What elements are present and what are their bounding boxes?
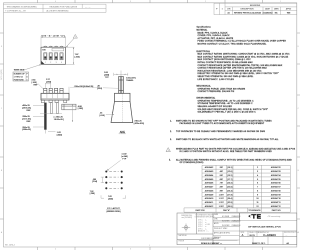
svg-text:SCALE 8:1 WEIGHT —: SCALE 8:1 WEIGHT — [201,242,222,245]
svg-text:ADE04T10: ADE04T10 [271,197,282,200]
svg-text:SEALING: AGAINST DIP SOLDER: SEALING: AGAINST DIP SOLDER [198,105,233,108]
copyright header table [4,4,107,12]
pitch dimension above nubs [45,83,50,88]
svg-text:MOVING CONTACT: CU ALLOY, TWO-: MOVING CONTACT: CU ALLOY, TWO-SIDED GOLD… [198,43,268,46]
svg-text:ADE04T12: ADE04T12 [271,205,282,208]
top view scallops on upper edge [44,46,63,47]
svg-text:[.296]: [.296] [90,193,95,195]
svg-text:ADE0407: ADE0407 [205,186,214,189]
svg-text:[12.6]: [12.6] [227,171,232,173]
svg-text:IN 2 AND 3 POSITION SWITCH WIT: IN 2 AND 3 POSITION SWITCH WITHOUT ALSO,… [180,150,273,153]
svg-text:INSULATION RESISTANCE: 1,000 M: INSULATION RESISTANCE: 1,000 MEGOHMS MIN… [198,69,263,72]
svg-text:1471-9 (3/13): 1471-9 (3/13) [1,69,3,80]
svg-text:[20.2]: [20.2] [227,183,232,185]
svg-text:OPERATING TEMPERATURE: -40 TO: OPERATING TEMPERATURE: -40 TO +85 DEGREE… [198,99,255,102]
seating plane line [40,113,62,115]
wire side leader [23,65,41,71]
svg-text:CONTACT RESISTANCE (AFTER LIFE: CONTACT RESISTANCE (AFTER LIFE TEST): 10… [198,67,268,70]
left leader dims at nubs [32,80,39,87]
svg-text:MECHANICAL: MECHANICAL [197,85,212,88]
svg-text:ADE0402: ADE0402 [205,166,214,169]
svg-text:19.00±.05 ]: 19.00±.05 ] [54,119,64,121]
svg-text:SELECTIVE STRENGTH: 500 VAC RM: SELECTIVE STRENGTH: 500 VAC RMS @ SEA LE… [198,75,255,78]
side view upper body box [115,93,131,101]
svg-text:[17.7]: [17.7] [227,179,232,181]
svg-text:SOLDER HEAT RESISTANCE PER MIL: SOLDER HEAT RESISTANCE PER MIL-202, COND… [198,108,269,111]
svg-text:WM: WM [287,13,291,15]
front view body [41,93,69,100]
svg-text:mm [INCHES]: mm [INCHES] [181,217,192,219]
svg-text:[.010]: [.010] [100,115,105,117]
svg-text:[.100]: [.100] [32,82,37,84]
svg-text:Specifications:: Specifications: [197,26,212,29]
vertical dim line right of pins [72,105,74,123]
svg-text:1.197: 1.197 [219,198,225,200]
svg-text:ADE04T04: ADE04T04 [271,174,282,177]
projection angle symbol [182,224,190,232]
specifications text block [197,26,291,114]
title block frame [177,213,297,245]
bracket dim below body [54,117,64,122]
stem width dim [97,86,102,91]
svg-text:PART NO.: PART NO. [272,209,282,212]
svg-text:STORAGE TEMPERATURE: -40 TO +1: STORAGE TEMPERATURE: -40 TO +105 DEGREES… [198,102,254,105]
svg-text:FINISH: FINISH [179,240,185,242]
svg-text:RELEASED FOR PUBLICATION: RELEASED FOR PUBLICATION [50,5,78,8]
svg-text:[.310]: [.310] [75,57,80,59]
svg-text:ADE0410: ADE0410 [205,197,214,200]
svg-text:1: 1 [222,9,223,11]
svg-text:W. MYER: W. MYER [222,220,230,222]
svg-text:5.: 5. [169,159,171,161]
svg-text:TRAVEL: TRAVEL [126,79,135,82]
stem travel dimension [114,71,128,77]
svg-text:APVD: APVD [214,222,219,225]
size cage drawing no row [241,231,299,236]
row span dimension [101,195,126,198]
front view: actuator nubs [44,88,63,93]
top view actuators (off position) [44,56,62,58]
svg-text:[30.4]: [30.4] [227,198,232,200]
top view switch slot 1 [44,53,63,60]
svg-text:REVISIONS: REVISIONS [250,5,261,7]
svg-text:1.: 1. [170,120,172,122]
svg-text:ON: ON [42,50,46,52]
svg-text:REVISED PER ECO-14-009143: REVISED PER ECO-14-009143 [234,13,261,15]
pin 1 corner marker [41,61,44,64]
svg-text:[.050]: [.050] [46,82,51,84]
svg-text:ADE0404: ADE0404 [205,174,214,177]
svg-text:A: A [242,233,244,237]
svg-text:[32.9]: [32.9] [227,202,232,204]
svg-text:TYP: TYP [105,77,110,79]
svg-text:3: 3 [130,1,131,3]
svg-text:4: 4 [168,150,169,152]
svg-text:POSITIONS: POSITIONS [14,79,25,81]
svg-text:[.098±.01]: [.098±.01] [22,129,31,131]
svg-text:CONTACT PRESSURE: 200,000 PSI: CONTACT PRESSURE: 200,000 PSI [198,90,235,93]
TE connectivity logo [248,214,261,219]
svg-text:2: 2 [50,62,51,64]
note 1 triangle flag with leader [66,34,77,46]
svg-text:LIFE EXPECTANCY: 1,000 CYCLES: LIFE EXPECTANCY: 1,000 CYCLES [198,78,235,81]
svg-text:[.300]: [.300] [108,199,113,201]
pad diameter callout [122,153,129,160]
svg-text:[10.1]: [10.1] [227,167,232,169]
svg-text:1: 1 [280,1,281,3]
svg-text:23JAN2014: 23JAN2014 [232,224,241,227]
svg-text:[2.54]: [2.54] [92,181,97,183]
svg-text:[.040]: [.040] [57,134,62,136]
svg-text:3.: 3. [170,139,172,141]
svg-text:1.297: 1.297 [219,202,225,204]
svg-text:MATERIAL: MATERIAL [197,29,209,32]
parts list table [184,165,290,212]
svg-text:— . —: — . — [85,6,90,8]
left wall dim .25 [.010] [100,113,105,118]
svg-text:ANGLES: ANGLES [198,230,206,233]
svg-text:00779: 00779 [249,235,254,237]
svg-text:MAX CONTACT RATING (SWITCHING): MAX CONTACT RATING (SWITCHING): CONDUCTA… [198,53,291,56]
svg-text:ADE0406: ADE0406 [205,182,214,185]
svg-text:[22.8]: [22.8] [227,187,232,189]
svg-text:1.097: 1.097 [219,194,225,196]
svg-text:CUSTOMER DRAWING: CUSTOMER DRAWING [201,237,220,240]
top view recess outline [52,48,64,51]
svg-text:APPLICATION SPEC: APPLICATION SPEC [214,232,231,235]
top view depth dimension .310 [7.87] [66,47,75,64]
svg-text:ADE04T11: ADE04T11 [271,201,282,204]
pin 2 (to seating plane) [50,103,52,114]
svg-text:ADE0408: ADE0408 [205,189,214,192]
svg-text:ADE0403: ADE0403 [205,170,214,173]
svg-text:23JAN2014: 23JAN2014 [263,12,273,15]
top view position numbers [45,62,62,64]
svg-text:M. CHEN: M. CHEN [222,216,230,218]
side stub view right of pins [62,104,76,110]
svg-text:DIP SWITCH, ADE SERIES, 4 POS: DIP SWITCH, ADE SERIES, 4 POS [248,226,281,229]
svg-text:W. MYER: W. MYER [222,225,230,227]
svg-text:MATERIAL: MATERIAL [179,234,187,237]
svg-text:A1: A1 [228,12,230,15]
svg-text:BASE: PPS, UL94V-0, BLACK: BASE: PPS, UL94V-0, BLACK [198,31,229,34]
svg-text:ADE04T08: ADE04T08 [271,189,282,192]
svg-text:ADE04T09: ADE04T09 [271,193,282,196]
svg-text:DWN: DWN [274,9,279,11]
svg-text:[.189]: [.189] [78,108,83,110]
svg-text:ENVIRONMENTAL: ENVIRONMENTAL [197,97,217,100]
pin 1 (full length, sectioned) [44,103,46,130]
svg-text:23JAN2014: 23JAN2014 [232,215,241,218]
svg-text:ADE0412: ADE0412 [205,205,214,208]
numbered notes [169,119,296,164]
height dimension .318 [8.08] [68,87,70,93]
svg-text:OF 27JAN2003 (ROHS): OF 27JAN2003 (ROHS) [180,161,204,164]
svg-text:OTHERWISE SPECIFIED:: OTHERWISE SPECIFIED: [195,217,216,219]
svg-text:C–ADE04: C–ADE04 [263,233,276,237]
svg-text:ADE04T03: ADE04T03 [271,170,282,173]
svg-text:DIM “A” [DIM “A”]: DIM “A” [DIM “A”] [41,34,65,37]
svg-text:ADE04T07: ADE04T07 [271,186,282,189]
svg-text:ELECTRICAL: ELECTRICAL [197,50,211,53]
side view: actuator stem [119,77,124,94]
svg-text:PRODUCT SPEC: PRODUCT SPEC [214,228,228,230]
svg-text:ALL MATERIALS AND FINISHES SHA: ALL MATERIALS AND FINISHES SHALL COMPLY … [176,158,292,161]
svg-text:SWITCHES TO BE SHOWN IN THE "O: SWITCHES TO BE SHOWN IN THE "OFF" POSITI… [176,119,272,122]
svg-text:THIS DRAWING IS UNPUBLISHED.: THIS DRAWING IS UNPUBLISHED. [7,5,38,8]
base width dim [134,121,144,126]
svg-text:[25.3]: [25.3] [227,190,232,192]
tolerance block text [179,214,216,243]
svg-text:4: 4 [61,62,62,64]
svg-text:[15.2]: [15.2] [227,175,232,177]
top view: DIP switch body [41,47,66,64]
svg-text:[35.5]: [35.5] [227,206,232,208]
body centerline [121,93,123,122]
svg-text:[.029±.010]: [.029±.010] [134,123,144,125]
svg-text:(WIRING SIDE): (WIRING SIDE) [107,211,121,213]
svg-text:1.397: 1.397 [219,206,225,208]
svg-text:4: 4 [55,1,56,3]
svg-text:PART P/N: PART P/N [195,209,205,212]
pad pitch dim [101,177,104,183]
svg-text:3: 3 [56,62,57,64]
pc layout solder pads [105,170,122,189]
revisions table [214,3,297,14]
svg-text:TOLERANCE: TOLERANCE [248,209,261,212]
svg-text:OPERATING FORCE: LESS THAN 800: OPERATING FORCE: LESS THAN 800 GRAMS [198,87,246,90]
svg-text:MAX CONTACT (NON-SWITCHING): 2: MAX CONTACT (NON-SWITCHING): 25MA @ 1 VD… [198,58,252,61]
svg-text:[27.9]: [27.9] [227,194,232,196]
svg-text:ADE0405: ADE0405 [205,178,214,181]
svg-text:ADE04T02: ADE04T02 [271,166,282,169]
svg-text:ADE0409: ADE0409 [205,193,214,196]
svg-text:SWITCHES TO BE BLACK WITH WHIT: SWITCHES TO BE BLACK WITH WHITE ACTUATOR… [176,138,279,141]
svg-text:MAX CONTACT RATING (CARRYING):: MAX CONTACT RATING (CARRYING): 100MA @ 5… [198,55,289,58]
svg-text:1: 1 [27,79,28,81]
note 4 triangle flag [166,148,170,152]
svg-text:DESCRIPTION: DESCRIPTION [241,9,255,11]
svg-text:PACKAGED IN LIGHT TUBES TO ACC: PACKAGED IN LIGHT TUBES TO ACCOMMODATE A… [180,122,265,125]
svg-text:ACTUATOR: PBT, UL94V-0, WHITE: ACTUATOR: PBT, UL94V-0, WHITE [198,37,234,40]
svg-text:1 THRU 12: 1 THRU 12 [14,77,23,79]
svg-text:NO. 1470-2: NO. 1470-2 [5,244,15,246]
svg-text:DATE: DATE [265,8,271,11]
svg-text:SHEET 1 OF 1: SHEET 1 OF 1 [252,243,266,245]
scale sheet row [201,242,290,245]
svg-text:23JAN2014: 23JAN2014 [232,219,241,222]
svg-text:ADE04T05: ADE04T05 [271,178,282,181]
note box: number of positions [13,72,29,81]
svg-text:TYP: TYP [122,158,127,160]
svg-text:1: 1 [45,62,46,64]
svg-text:NUMBER OF: NUMBER OF [14,74,26,76]
pin tip dim [57,132,62,136]
svg-text:0: 0 [27,77,28,79]
svg-text:CONTACT RESISTANCE (AFTER ENVI: CONTACT RESISTANCE (AFTER ENVIRONMENTAL … [198,64,283,67]
svg-text:WIRE SIDE: WIRE SIDE [14,70,25,72]
svg-text:COVER: PPS, UL94V-0, BLACK: COVER: PPS, UL94V-0, BLACK [198,34,231,37]
svg-text:APVD: APVD [286,8,292,11]
svg-text:.318±.010 [8.08±0.25]: .318±.010 [8.08±0.25] [74,86,94,88]
svg-text:WHEN ADDING PLCS PART NO DIGIT: WHEN ADDING PLCS PART NO DIGITS PER PART… [176,147,296,150]
svg-text:SOLDERABILITY PER MIL-T (AT) 2: SOLDERABILITY PER MIL-T (AT) 2 DEG C @ 2… [198,111,257,114]
front view standoff feet [41,100,66,103]
svg-text:TOP SURFACES TO BE CLEANLY AND: TOP SURFACES TO BE CLEANLY AND PERMANENT… [176,130,266,133]
svg-text:1: 1 [75,37,76,39]
svg-text:[.016]: [.016] [97,88,102,90]
svg-text:ALL RIGHTS RESERVED.: ALL RIGHTS RESERVED. [47,10,70,13]
left bottom dim [90,191,95,195]
svg-text:© COPYRIGHT 20__ BY: © COPYRIGHT 20__ BY [5,10,27,13]
svg-text:1: 1 [149,245,150,247]
svg-text:2.: 2. [170,131,172,133]
left dimension stack [22,105,31,131]
pin 3 (to seating plane) [56,103,58,114]
svg-text:2: 2 [205,1,206,3]
svg-text:ADE04T06: ADE04T06 [271,182,282,185]
pad row connection dashes [109,172,118,189]
svg-text:ADE0411: ADE0411 [205,201,214,204]
svg-text:INITIAL CONTACT RESISTANCE: 50: INITIAL CONTACT RESISTANCE: 50 MILLIOHMS… [198,61,254,64]
side view lower body (trapezoid) [111,101,133,122]
svg-text:FIXED CONTACT/TERMINAL: CU ALL: FIXED CONTACT/TERMINAL: CU ALLOY/GOLD FL… [198,40,287,43]
svg-text:DIM “A”: DIM “A” [223,209,230,212]
svg-text:DIELECTRIC STRENGTH: 500 VAC R: DIELECTRIC STRENGTH: 500 VAC RMS @ SEA L… [198,72,279,75]
svg-text:• TE connectivity: • TE connectivity [267,215,280,218]
name/date rows [201,214,240,240]
dim A overall width, top view [41,36,66,46]
